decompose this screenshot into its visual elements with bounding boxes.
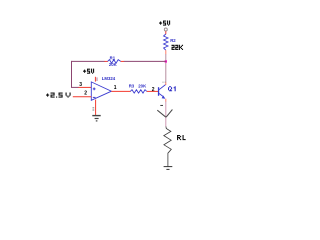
wire: R2 bottom stub [165,50,167,54]
transistor Q1 emitter line [159,93,163,96]
svg-text:3: 3 [79,82,82,88]
wire: feedback horizontal left segment [72,60,105,62]
label RL [177,135,186,140]
power +5V label (top right) [159,21,170,26]
wire: emitter net vertical (pink) [165,102,167,127]
resistor R3 (horizontal zigzag) [130,90,147,93]
svg-text:20K: 20K [109,62,118,67]
ground (RL bottom) [164,166,173,168]
resistor R2 (vertical zigzag) [164,34,168,50]
wire: red run to op-amp pin 3 [78,86,91,88]
op-amp - input mark [93,96,96,98]
ground (op-amp V-) [92,115,100,117]
resistor RL (black zigzag) [164,127,172,167]
wire: +2.5V to op-amp pin 2 [73,96,92,98]
svg-text:R2: R2 [170,38,176,43]
label Q1 [168,86,176,91]
wire: red stub at R1 left [104,60,108,62]
pin mark (emitter net) black dash [160,104,163,106]
current direction arrow (chevron) [157,110,172,118]
op-amp U1 LM324 triangle [91,82,111,100]
op-amp + input mark [93,88,96,91]
transistor Q1 collector line [159,85,166,90]
wire: +5V tick to op-amp V+ [94,77,96,82]
svg-text:1: 1 [114,85,117,91]
wire: feedback vertical (left side) [71,61,73,88]
wire: purple run into pin 3 [72,86,79,88]
wire: +5V terminal to R2 top [165,31,167,34]
wire: purple tick beside V+ [96,77,98,81]
wire: feedback horizontal right segment (R1 to junction) [124,60,166,62]
svg-text:2: 2 [152,87,155,93]
wire: collector stub red [165,82,167,85]
resistor R1 (horizontal zigzag) [108,60,121,64]
junction dot (R1 feedback to collector net) [165,60,167,62]
svg-text:2: 2 [84,90,87,96]
wire: op-amp output to R3 [111,90,130,92]
+5V terminal circle [164,28,167,31]
pin mark (collector) grey ticks [162,81,165,83]
wire: R3 to Q1 base [147,90,158,92]
wire: red stub at R1 right [121,60,124,62]
svg-text:20K: 20K [138,83,147,88]
svg-text:R1: R1 [110,56,116,61]
+5V label (above op-amp) [83,69,94,74]
wire: collector net vertical [165,54,167,83]
+2.5V source label [46,93,71,98]
transistor Q1 emitter arrowhead [162,96,166,99]
pin number 11 (V-) tiny dashes [93,108,95,110]
wire: emitter stub red [165,99,167,102]
wire: op-amp V- down [95,100,97,115]
svg-text:R3: R3 [129,83,135,88]
value 22K [172,45,184,50]
transistor Q1 base bar [158,87,159,96]
svg-text:LM324: LM324 [102,76,116,81]
